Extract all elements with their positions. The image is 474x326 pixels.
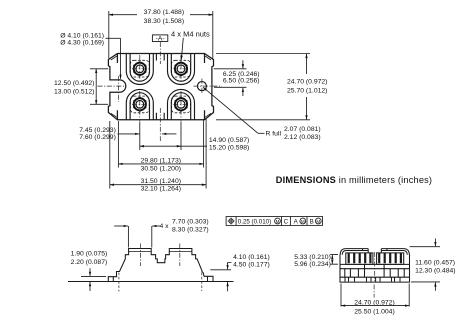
mounting hole right [197, 82, 206, 91]
feature control frame [226, 217, 322, 226]
dim 4x 7.70/8.30 extension lines [128, 226, 151, 248]
terminal pocket top-left outer [126, 54, 153, 85]
svg-text:24.70 (0.972): 24.70 (0.972) [354, 300, 394, 307]
terminal pocket bottom-left outer [126, 89, 153, 119]
centerline horizontal left slot [98, 85, 126, 87]
svg-text:31.50 (1.240): 31.50 (1.240) [141, 178, 181, 185]
svg-text:37.80 (1.488): 37.80 (1.488) [144, 9, 184, 16]
svg-text:32.10 (1.264): 32.10 (1.264) [141, 185, 181, 192]
side view mid cell dividers [345, 269, 404, 278]
svg-text:5.96 (0.234): 5.96 (0.234) [294, 261, 331, 268]
center top rib [156, 54, 164, 61]
nut circle bottom-right [175, 98, 187, 110]
terminal pocket top-right outer [168, 54, 195, 85]
front view terminal centerlines [139, 244, 141, 267]
side view horizontal bands [340, 264, 410, 277]
front view right foot [204, 276, 213, 281]
left hole centerline extension down [117, 76, 119, 102]
side view center block [365, 264, 385, 277]
svg-text:24.70 (0.972): 24.70 (0.972) [287, 78, 327, 85]
dim 37.80/38.30 dimension line [109, 14, 137, 16]
dim 4x 7.70/8.30 arrows [114, 225, 128, 227]
circled M 3 [315, 218, 321, 224]
svg-text:29.80 (1.173): 29.80 (1.173) [141, 157, 181, 164]
dim 29.80 extension lines [118, 119, 203, 168]
svg-text:C: C [284, 218, 289, 225]
centerline vertical datum A [159, 42, 161, 64]
position symbol [229, 219, 233, 223]
leader R full [258, 132, 265, 134]
dim 1.90/2.20 arrows [89, 268, 91, 276]
nut pocket dashed square top-right [172, 60, 191, 77]
svg-text:14.90 (0.587): 14.90 (0.587) [209, 137, 249, 144]
dim 24.70/25.70 extension lines [216, 54, 310, 120]
dim 4.10/4.50 arrows [228, 263, 232, 265]
terminal pocket bottom-left inner [130, 93, 149, 120]
nut circle top-right [175, 63, 187, 75]
front view baseline [68, 281, 234, 283]
dim 5.33/5.96 ticks [330, 255, 338, 265]
centerline horizontal right hole [194, 85, 223, 87]
side view top clip left [340, 249, 368, 255]
svg-text:2.20 (0.087): 2.20 (0.087) [71, 259, 108, 266]
svg-text:2.12 (0.083): 2.12 (0.083) [284, 134, 321, 141]
dim 29.80/30.50 dimension line [118, 163, 203, 165]
dim 6.25/6.50 ticks [214, 69, 247, 88]
circled M 1 [275, 218, 281, 224]
dim 5.33/5.96 arrows [331, 255, 333, 258]
svg-text:38.30 (1.508): 38.30 (1.508) [144, 18, 184, 25]
svg-text:1.90 (0.075): 1.90 (0.075) [71, 251, 108, 258]
circled M 2 [300, 218, 306, 224]
dim 31.50/32.10 extension lines [110, 118, 206, 189]
leader M4 nuts [181, 38, 183, 60]
side view bottom cell dividers [345, 277, 400, 281]
front view left foot [108, 277, 117, 282]
dim 14.90/15.20 dimension line [140, 145, 181, 147]
dim 11.60/12.30 ticks [410, 247, 440, 282]
dim 12.50/13.00 dimension line [95, 69, 97, 105]
svg-text:15.20 (0.598): 15.20 (0.598) [209, 145, 249, 152]
svg-text:Ø 4.10 (0.161): Ø 4.10 (0.161) [60, 32, 104, 39]
dim 6.25/6.50 arrows [242, 60, 244, 68]
nut circle top-left [134, 63, 146, 75]
dim 12.50/13.00 ticks [90, 69, 108, 105]
side view nut tower left [346, 253, 373, 265]
svg-text:Ø 4.30 (0.169): Ø 4.30 (0.169) [60, 40, 104, 47]
svg-text:11.60 (0.457): 11.60 (0.457) [415, 259, 455, 266]
centerline vertical right hole [201, 79, 203, 94]
side view nut tower right [377, 253, 404, 265]
svg-text:13.00 (0.512): 13.00 (0.512) [54, 89, 94, 96]
front view body outline [117, 249, 204, 277]
nut circle bottom-left [134, 98, 146, 110]
svg-text:25.70 (1.012): 25.70 (1.012) [287, 87, 327, 94]
dim 37.80/38.30 extension lines [109, 11, 213, 59]
svg-text:4.50 (0.177): 4.50 (0.177) [233, 261, 270, 268]
dim 4.10/4.50 ticks [210, 269, 231, 271]
svg-text:M: M [276, 219, 280, 224]
top view square left edge [116, 54, 118, 120]
svg-text:7.70 (0.303): 7.70 (0.303) [172, 218, 209, 225]
front view [68, 249, 234, 282]
terminal pocket bottom-right inner [171, 93, 190, 120]
svg-text:25.50 (1.004): 25.50 (1.004) [354, 309, 394, 316]
top view body outline [108, 54, 213, 120]
leader diameter callout [106, 37, 121, 39]
side view [340, 249, 410, 283]
terminal pocket top-right inner [171, 54, 190, 81]
nut pocket dashed square bottom-right [172, 96, 191, 113]
svg-text:M: M [301, 219, 305, 224]
svg-text:DIMENSIONS in millimeters (inc: DIMENSIONS in millimeters (inches) [276, 175, 432, 185]
dim 7.45/7.60 arrows [118, 133, 140, 135]
dim 1.90/2.20 ticks [81, 275, 106, 277]
svg-text:4 x M4 nuts: 4 x M4 nuts [171, 29, 210, 38]
svg-text:8.30 (0.327): 8.30 (0.327) [172, 227, 209, 234]
terminal centerline crosses [132, 55, 148, 82]
svg-text:4 x: 4 x [160, 223, 170, 230]
svg-text:30.50 (1.200): 30.50 (1.200) [141, 165, 181, 172]
svg-text:12.50 (0.492): 12.50 (0.492) [54, 80, 94, 87]
front view block cap inner lines [129, 251, 192, 253]
svg-text:M: M [316, 219, 320, 224]
svg-text:2.07 (0.081): 2.07 (0.081) [284, 126, 321, 133]
dim 14.90 extension lines [140, 122, 181, 151]
svg-text:0.25 (0.010): 0.25 (0.010) [238, 218, 271, 225]
dim side 24.70/25.50 extension lines [341, 284, 409, 307]
side view body outline [340, 255, 410, 283]
dim 11.60/12.30 arrows [434, 239, 436, 247]
svg-text:7.60 (0.299): 7.60 (0.299) [79, 134, 116, 141]
svg-text:7.45 (0.293): 7.45 (0.293) [79, 127, 116, 134]
datum A box [152, 35, 167, 43]
side view top clip right [381, 249, 409, 255]
center bottom rib [156, 113, 164, 120]
nut pocket dashed square bottom-left [130, 96, 149, 113]
svg-text:R full: R full [266, 131, 282, 138]
terminal pocket bottom-right outer [168, 89, 195, 119]
front view hole centerlines dashed [118, 273, 120, 292]
svg-text:6.50 (0.256): 6.50 (0.256) [223, 78, 260, 85]
chamfer inner lines [111, 56, 211, 117]
svg-text:5.33 (0.210): 5.33 (0.210) [294, 254, 331, 261]
top view square right edge [204, 54, 206, 120]
side view centerline [374, 252, 376, 281]
svg-text:-A-: -A- [156, 36, 165, 43]
nut pocket dashed square top-left [130, 60, 149, 77]
svg-text:B: B [310, 218, 314, 225]
svg-text:4.10 (0.161): 4.10 (0.161) [233, 254, 270, 261]
dim 24.70/25.70 dimension line [306, 54, 308, 74]
svg-text:12.30 (0.484): 12.30 (0.484) [415, 267, 455, 274]
dim 31.50/32.10 dimension line [110, 184, 206, 186]
dim side 24.70/25.50 dimension line [341, 305, 409, 307]
terminal pocket top-left inner [130, 54, 149, 81]
